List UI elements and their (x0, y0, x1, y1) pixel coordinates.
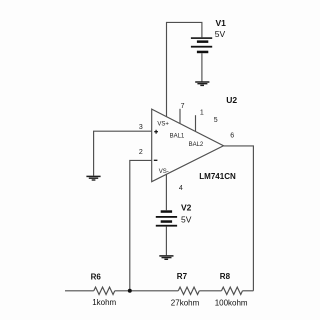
ground (below V1) (195, 82, 209, 85)
resistor R6 zigzag (94, 287, 115, 294)
svg-text:1: 1 (200, 110, 204, 117)
op-amp + input marker (154, 130, 158, 134)
wire R7 to R8 (199, 290, 221, 292)
resistor R8 zigzag (222, 287, 243, 294)
pin 1 stub (195, 115, 197, 131)
wire pin4 (VS-) down to V2 (165, 174, 167, 210)
svg-text:BAL2: BAL2 (189, 142, 204, 148)
svg-text:5V: 5V (181, 214, 192, 224)
svg-text:4: 4 (179, 185, 183, 192)
svg-text:2: 2 (139, 149, 143, 156)
svg-text:U2: U2 (226, 95, 237, 105)
svg-text:V1: V1 (216, 18, 227, 28)
svg-text:100kohm: 100kohm (215, 298, 248, 307)
wire left lead (65, 290, 94, 292)
svg-text:27kohm: 27kohm (171, 298, 200, 307)
wire R8 to output corner (243, 290, 254, 292)
battery V2 (156, 210, 177, 226)
svg-text:R6: R6 (91, 272, 102, 281)
resistor R7 zigzag (178, 287, 199, 294)
svg-text:5V: 5V (215, 29, 226, 39)
svg-text:V2: V2 (181, 203, 192, 213)
junction node (pin2 net joins bus) (128, 289, 132, 293)
wire VS+ net: from op-amp top edge up, right, down to V1 + terminal (167, 22, 202, 116)
wire V2 + terminal down to ground (165, 227, 167, 256)
svg-text:6: 6 (230, 132, 234, 139)
wire pin3 net: op-amp IN+ to left then down to ground (94, 131, 152, 176)
wire pin2 net: op-amp IN- left then down to bottom bus (130, 160, 152, 290)
op-amp - input marker (154, 159, 158, 161)
ground (left, at IN+ net) (86, 176, 100, 180)
svg-text:VS-: VS- (159, 169, 169, 175)
wire output net: pin6 right then down to bottom bus (224, 146, 254, 291)
svg-text:R7: R7 (177, 272, 188, 281)
svg-text:BAL1: BAL1 (170, 133, 185, 139)
svg-text:3: 3 (139, 124, 143, 131)
ground (below V2) (159, 256, 173, 259)
wire R6 to R7 through junction (115, 290, 179, 292)
svg-text:7: 7 (181, 103, 185, 110)
op-amp U1 triangle body (152, 109, 224, 182)
svg-text:LM741CN: LM741CN (199, 172, 236, 181)
svg-text:VS+: VS+ (157, 122, 169, 128)
pin 7 stub (179, 109, 181, 124)
svg-text:1kohm: 1kohm (92, 298, 116, 307)
svg-text:R8: R8 (220, 272, 231, 281)
wire V1 - terminal down to ground (201, 53, 203, 81)
battery V1 (191, 37, 212, 53)
svg-text:5: 5 (214, 117, 218, 124)
